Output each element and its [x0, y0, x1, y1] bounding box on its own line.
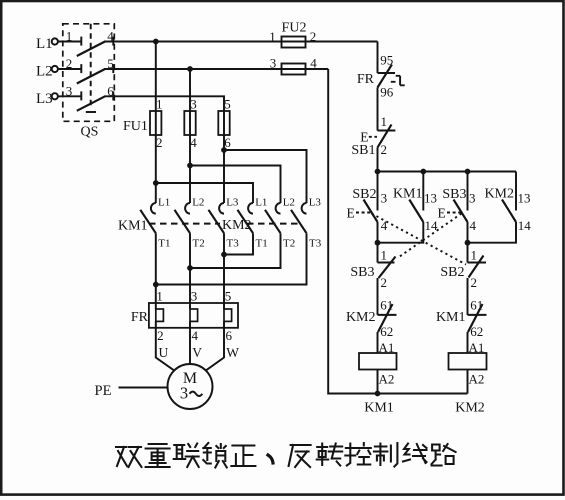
contact KM1 13-14 NO	[422, 172, 424, 211]
contact KM2 13-14 NO	[515, 172, 517, 211]
junction phase-B tap to FU2	[187, 66, 193, 72]
svg-text:SB3: SB3	[442, 187, 466, 202]
wire KM2nc to coil	[377, 332, 379, 353]
wire KM2 T3 crossover	[156, 233, 307, 284]
wire phase L1 top	[104, 41, 378, 43]
svg-text:T2: T2	[283, 238, 295, 250]
wire KM2 T2 crossover	[190, 233, 281, 268]
junction KM2-T2 to T2 line	[187, 265, 193, 271]
pushbutton SB1 stop	[378, 130, 396, 132]
junction phase-A tap to FU2	[153, 39, 159, 45]
svg-text:T1: T1	[158, 238, 170, 250]
wire KM1 T1 down	[155, 233, 157, 303]
fuse FU2-b	[282, 64, 306, 75]
contact KM2 61-62 NC	[378, 314, 397, 316]
node L3 terminal	[52, 93, 58, 99]
wire SB1 to rail	[377, 148, 379, 172]
wire motor V	[189, 328, 191, 364]
svg-text:96: 96	[380, 85, 394, 100]
wire control rail	[378, 171, 517, 173]
svg-text:95: 95	[380, 53, 393, 68]
motor M	[168, 364, 213, 409]
junction phase-A to KM2 feed	[153, 180, 159, 186]
wire heater stubs	[156, 303, 224, 328]
svg-text:3: 3	[381, 191, 388, 206]
wire KM1 T2 down	[189, 233, 191, 303]
svg-text:A2: A2	[469, 372, 485, 387]
relay FR heater element 1	[156, 309, 164, 321]
svg-text:1: 1	[156, 97, 163, 112]
svg-text:SB3: SB3	[350, 265, 374, 280]
svg-text:1: 1	[381, 247, 388, 262]
svg-text:3: 3	[469, 191, 476, 206]
svg-text:T3: T3	[309, 238, 322, 250]
junction KM2-T1 to T3 line	[221, 252, 227, 258]
relay FR heater frame	[149, 303, 238, 328]
svg-text:2: 2	[310, 29, 317, 44]
wire KM2 feed 1	[156, 183, 253, 203]
pushbutton SB2 NC	[467, 243, 469, 263]
wire PE	[119, 387, 168, 389]
svg-text:W: W	[226, 345, 239, 360]
svg-text:13: 13	[424, 191, 437, 206]
svg-text:L3: L3	[36, 91, 53, 107]
interlock dotted SB2	[372, 214, 467, 265]
svg-text:SB1: SB1	[351, 143, 375, 158]
svg-text:3: 3	[191, 289, 198, 304]
svg-text:1: 1	[66, 29, 73, 44]
svg-text:5: 5	[224, 97, 231, 112]
svg-text:62: 62	[470, 324, 483, 339]
svg-text:6: 6	[226, 328, 233, 343]
wire phase A drop	[155, 42, 157, 204]
svg-text:FR: FR	[357, 72, 375, 87]
svg-text:4: 4	[470, 218, 477, 233]
fuse FU2-a	[282, 37, 306, 48]
contactor KM1 main contact 1	[151, 203, 156, 214]
svg-text:14: 14	[425, 218, 439, 233]
wire control hot drop	[377, 42, 379, 74]
svg-text:FU1: FU1	[123, 119, 148, 134]
svg-text:SB2: SB2	[352, 187, 376, 202]
wire KM2 T1 crossover	[224, 233, 253, 254]
svg-text:L3: L3	[226, 196, 239, 208]
svg-text:3: 3	[190, 97, 197, 112]
pushbutton SB3 NC	[377, 243, 379, 263]
svg-text:V: V	[192, 345, 202, 360]
svg-text:2: 2	[156, 135, 163, 150]
svg-text:1: 1	[269, 29, 276, 44]
svg-text:L2: L2	[36, 64, 53, 80]
svg-text:1: 1	[156, 289, 163, 304]
svg-text:KM2: KM2	[346, 310, 376, 325]
wire motor U	[156, 328, 175, 371]
svg-text:PE: PE	[95, 383, 112, 399]
junction rail at SB3 branch	[465, 169, 471, 175]
wire phase C drop	[223, 111, 225, 203]
wire motor W	[206, 328, 224, 371]
svg-text:L1: L1	[36, 36, 53, 52]
svg-text:61: 61	[470, 298, 483, 313]
junction node reverse branch	[465, 240, 471, 246]
junction phase-C to KM2 feed	[221, 147, 227, 153]
switch QS enclosure	[63, 24, 115, 122]
svg-text:2: 2	[471, 275, 478, 290]
junction rail at SB2 branch	[375, 169, 381, 175]
svg-text:2: 2	[66, 56, 73, 71]
wire SB3nc to KM2nc	[377, 278, 379, 315]
svg-text:E: E	[347, 206, 355, 221]
svg-text:KM2: KM2	[455, 401, 485, 416]
switch QS pole 1	[58, 41, 81, 43]
svg-text:L1: L1	[158, 196, 170, 208]
svg-text:L1: L1	[255, 196, 267, 208]
svg-text:4: 4	[190, 135, 197, 150]
junction phase-B to KM2 feed	[187, 163, 193, 169]
svg-text:T1: T1	[256, 238, 268, 250]
wire KM1 T3 down	[223, 233, 225, 303]
relay contact FR 95-96	[378, 72, 396, 74]
pushbutton SB2 start-fwd NO	[377, 172, 379, 211]
fuse FU1-b	[184, 111, 195, 135]
wire SB2nc to KM1nc	[467, 278, 469, 315]
fuse FU1-c	[218, 111, 229, 135]
wire KM2 feed 2	[190, 166, 281, 204]
svg-text:KM1: KM1	[436, 310, 466, 325]
svg-text:T2: T2	[193, 238, 205, 250]
relay FR heater element 3	[224, 309, 232, 321]
svg-text:FR: FR	[131, 310, 149, 325]
switch QS pole 2	[58, 68, 81, 70]
svg-text:2: 2	[381, 142, 388, 157]
svg-text:1: 1	[471, 247, 478, 262]
svg-text:61: 61	[380, 298, 393, 313]
svg-text:13: 13	[518, 191, 531, 206]
junction rail at KM1 branch	[420, 169, 426, 175]
svg-text:KM1: KM1	[118, 219, 148, 234]
svg-text:1: 1	[381, 114, 388, 129]
svg-text:L2: L2	[192, 196, 204, 208]
svg-text:KM2: KM2	[484, 187, 514, 202]
node L2 terminal	[52, 66, 58, 72]
contactor KM1 main contact 3	[219, 203, 224, 214]
junction node forward branch	[375, 240, 381, 246]
svg-text:U: U	[159, 345, 169, 360]
wire control return	[328, 69, 467, 394]
wire phase L3	[104, 96, 224, 111]
junction bottom rail	[375, 391, 381, 397]
contactor KM1 main contact 2	[185, 203, 190, 214]
svg-text:FU2: FU2	[282, 21, 307, 36]
junction KM2-T3 to T1 line	[153, 282, 159, 288]
svg-text:3: 3	[66, 84, 73, 99]
svg-text:4: 4	[310, 56, 317, 71]
svg-text:KM2: KM2	[222, 218, 252, 233]
svg-text:E: E	[438, 206, 446, 221]
wire phase L2	[104, 68, 328, 70]
switch QS pole 3	[58, 95, 81, 97]
relay FR heater element 2	[190, 309, 198, 321]
svg-text:QS: QS	[81, 125, 99, 140]
contactor KM2 main contact 3	[302, 203, 307, 214]
svg-text:A2: A2	[379, 372, 395, 387]
svg-text:2: 2	[381, 275, 388, 290]
contactor KM2 main contact 1	[248, 203, 253, 214]
svg-text:2: 2	[157, 328, 164, 343]
svg-text:SB2: SB2	[440, 265, 464, 280]
svg-text:5: 5	[225, 289, 232, 304]
svg-text:L3: L3	[309, 196, 322, 208]
node L1 terminal	[52, 38, 58, 44]
contact KM1 61-62 NC	[468, 314, 487, 316]
svg-text:62: 62	[380, 324, 393, 339]
svg-text:3: 3	[270, 56, 277, 71]
wire KM1nc to coil	[467, 332, 469, 353]
wire KM2 feed 3	[224, 150, 307, 203]
wire FR to SB1	[377, 88, 379, 131]
pushbutton SB3 start-rev NO	[467, 172, 469, 211]
caption 双重联锁正、反转控制线路	[116, 443, 456, 468]
svg-text:14: 14	[518, 218, 532, 233]
svg-text:4: 4	[192, 328, 199, 343]
interlock dotted SB3	[398, 214, 462, 259]
wire phase B drop	[189, 69, 191, 203]
svg-text:L2: L2	[283, 196, 295, 208]
svg-text:KM1: KM1	[364, 401, 394, 416]
svg-text:T3: T3	[227, 238, 240, 250]
svg-text:KM1: KM1	[393, 187, 423, 202]
svg-text:3: 3	[180, 384, 188, 403]
fuse FU1-a	[150, 111, 161, 135]
contactor KM2 main contact 2	[276, 203, 281, 214]
